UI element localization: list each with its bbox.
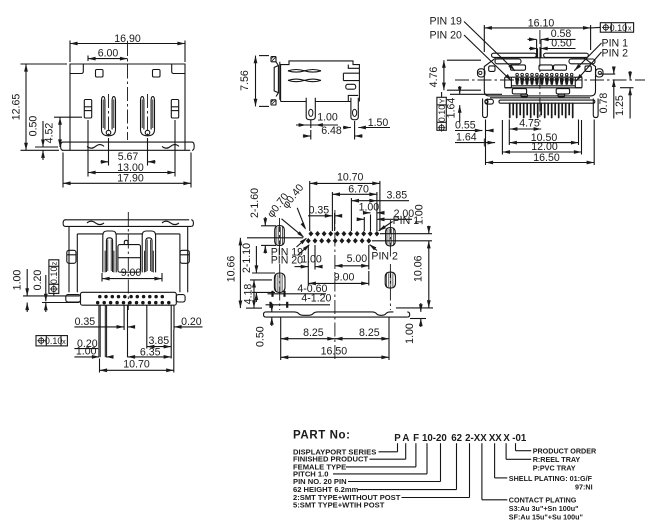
svg-text:1.00: 1.00 [12, 270, 24, 291]
rear view bottom flange strip [485, 99, 595, 104]
dim 2-1.10 [241, 243, 275, 302]
dim 0.58 [528, 28, 576, 41]
dim 10.70 bottom [100, 330, 174, 373]
label PIN 1 fp [379, 215, 420, 231]
svg-text:8.25: 8.25 [359, 327, 380, 339]
svg-text:0.10: 0.10 [610, 23, 628, 33]
bottom view flange [63, 220, 193, 227]
svg-text:-01: -01 [512, 433, 527, 444]
dim 10.70 fp [310, 171, 380, 231]
dim 0.35 bottom [74, 316, 135, 329]
svg-text:7.56: 7.56 [239, 70, 251, 91]
dim 0.20 right bottom [174, 316, 203, 329]
dim 1.00 side [296, 112, 338, 128]
dim 9.00 bottom [102, 267, 162, 282]
rear view centerline vertical [539, 30, 541, 122]
front view latch arm right [141, 94, 155, 141]
dim 10.06 [396, 241, 433, 308]
svg-text:97:NI: 97:NI [575, 482, 593, 491]
dim 8.25 right [335, 317, 389, 360]
dim 16.90 [70, 33, 185, 62]
svg-text:PIN 19: PIN 19 [430, 16, 462, 28]
svg-text:X: X [503, 433, 510, 444]
svg-text:62: 62 [451, 433, 462, 444]
svg-text:1.50: 1.50 [368, 117, 389, 129]
rear view leg left [483, 99, 488, 118]
svg-text:4.76: 4.76 [428, 67, 440, 88]
svg-text:0.50: 0.50 [254, 326, 266, 347]
dim 2.00 [357, 208, 415, 231]
svg-text:0.78: 0.78 [598, 93, 610, 114]
front view side contact right [171, 100, 178, 119]
label PIN 2 rear [576, 47, 628, 81]
svg-text:3.85: 3.85 [386, 190, 407, 202]
rear view contact teeth band [505, 73, 582, 88]
rear view side ear right [596, 69, 603, 77]
dim 4.52 [44, 117, 83, 147]
tolerance frame Y rear [437, 92, 447, 132]
svg-text:0.50: 0.50 [551, 37, 572, 49]
bottom view latch left [103, 231, 116, 272]
dim 4-0.60 [268, 283, 328, 297]
tolerance frame X bottom [36, 336, 67, 347]
svg-text:1.00: 1.00 [404, 323, 416, 344]
bottom view body sides [69, 226, 188, 292]
footprint centerline [334, 210, 336, 362]
svg-text:10.70: 10.70 [337, 171, 364, 183]
side view leg left [306, 98, 315, 120]
dim 16.10 [484, 17, 590, 52]
dim 1.00 left [12, 269, 80, 312]
svg-text:9.00: 9.00 [334, 272, 355, 284]
svg-text:SF:Au 15u"+Su 100u": SF:Au 15u"+Su 100u" [509, 513, 583, 522]
dim 7.56 [239, 56, 269, 107]
rear view center tab [537, 39, 541, 58]
footprint pad row lower [306, 238, 371, 243]
dim 8.25 left [281, 317, 335, 360]
dim 1.00 fp bottom right [404, 303, 426, 344]
bottom view inner top edge [77, 233, 180, 235]
dim 3.85 bottom [147, 335, 171, 349]
svg-text:XX: XX [489, 433, 502, 444]
dim 4-1.20 [266, 292, 332, 308]
bottom view side clip right [180, 250, 189, 263]
svg-text:0.35: 0.35 [75, 316, 96, 328]
svg-text:PIN 20: PIN 20 [430, 30, 462, 42]
front view centerline [127, 42, 129, 140]
svg-text:x: x [628, 24, 632, 33]
rear view centerline horizontal [455, 79, 645, 81]
part no code [394, 433, 527, 444]
dim 0.20 left [32, 270, 80, 312]
side view vent slot upper [288, 70, 321, 73]
dim 16.50 fp [281, 345, 389, 359]
dim 13.00 [88, 120, 175, 177]
tolerance frame X rear [591, 23, 634, 33]
dim 1.00 fp top [359, 202, 385, 231]
svg-text:P:PVC TRAY: P:PVC TRAY [533, 464, 576, 473]
rear view side ear left [478, 69, 485, 77]
svg-text:0.10: 0.10 [49, 267, 59, 285]
bottom view extension lines [99, 305, 174, 358]
svg-text:1.64: 1.64 [446, 98, 458, 119]
front view side contact left [84, 100, 91, 119]
svg-text:3.85: 3.85 [148, 335, 169, 347]
side view leg right [351, 98, 358, 120]
svg-text:4.18: 4.18 [243, 284, 255, 305]
svg-text:1.00: 1.00 [301, 253, 322, 265]
svg-text:10-20: 10-20 [422, 433, 447, 444]
dim 10.66 [225, 238, 303, 308]
svg-text:0.35: 0.35 [309, 204, 330, 216]
bottom view side clip left [67, 250, 76, 263]
dim 5.00 [335, 245, 369, 270]
svg-text:8.25: 8.25 [303, 327, 324, 339]
dim 1.25 [614, 71, 633, 119]
svg-text:10.06: 10.06 [413, 255, 425, 282]
dim 1.64 lower rear [455, 132, 495, 147]
rear view pin comb [510, 103, 573, 117]
svg-text:9.00: 9.00 [121, 267, 142, 279]
side view body outline [281, 61, 360, 102]
svg-text:16.50: 16.50 [533, 152, 560, 164]
mount slot lower-left [274, 264, 285, 310]
svg-text:x: x [62, 337, 66, 346]
rear view lower window rects [512, 89, 569, 97]
svg-text:PIN 2: PIN 2 [371, 250, 398, 262]
bottom view centerline [127, 212, 129, 310]
dim 6.35 bottom [128, 346, 172, 359]
bottom view center post [118, 240, 141, 272]
dim 5.67 [101, 138, 156, 166]
svg-text:1.00: 1.00 [317, 112, 338, 124]
front view corner notches [70, 64, 185, 74]
svg-text:2-1.10: 2-1.10 [241, 243, 253, 273]
rear view leg right [593, 99, 598, 118]
dim 0.50 [28, 116, 59, 160]
svg-text:6.48: 6.48 [321, 125, 342, 137]
dim 12.00 [502, 120, 581, 155]
svg-text:1.25: 1.25 [614, 95, 626, 116]
dim 4.18 [243, 280, 272, 308]
svg-text:16.50: 16.50 [321, 345, 348, 357]
svg-text:6.70: 6.70 [348, 183, 369, 195]
rear view shell outline [484, 58, 595, 98]
svg-text:1.64: 1.64 [456, 132, 477, 144]
part no left labels [293, 443, 470, 509]
svg-text:17.90: 17.90 [117, 173, 144, 185]
dim 1.50 [343, 117, 390, 129]
dim 4.75 [510, 117, 541, 131]
svg-text:5.00: 5.00 [347, 253, 368, 265]
svg-text:2-1.60: 2-1.60 [249, 188, 261, 218]
dim 1.00 fp stagger [295, 245, 323, 270]
dim 1.64 upper rear [446, 86, 502, 122]
dim 4.76 [428, 60, 481, 90]
tolerance frame Z bottom [49, 260, 59, 296]
svg-text:4.52: 4.52 [44, 123, 56, 144]
mount slot lower-right [385, 264, 395, 310]
dim 17.90 [63, 153, 191, 188]
dim 10.50 [509, 120, 578, 146]
label PIN 1 rear [574, 37, 628, 71]
svg-text:1.00: 1.00 [413, 204, 425, 225]
dim 0.50 fp [254, 303, 273, 347]
footprint pad row upper [309, 231, 379, 236]
mount slot upper-left [275, 218, 285, 258]
svg-text:PIN 2: PIN 2 [602, 47, 629, 59]
svg-text:10.70: 10.70 [123, 359, 150, 371]
dim 0.35 fp [308, 204, 342, 231]
svg-text:16.90: 16.90 [114, 33, 141, 45]
dim 3.85 fp [351, 190, 409, 232]
label PIN 20 rear [430, 30, 512, 82]
svg-text:5:SMT TYPE+WTIH POST: 5:SMT TYPE+WTIH POST [293, 500, 385, 509]
label PIN 20 fp [271, 244, 310, 266]
dim 6.00 [88, 48, 128, 61]
label phi 0.40 [280, 182, 306, 230]
label PIN 19 fp [271, 238, 307, 259]
board edge strip [264, 312, 410, 317]
side view vent slot lower [288, 79, 321, 82]
dim 0.78 [598, 67, 616, 119]
svg-text:0.50: 0.50 [28, 116, 40, 137]
svg-text:4-1.20: 4-1.20 [301, 292, 331, 304]
bottom view latch right [142, 231, 155, 272]
front view latch arm left [102, 94, 116, 141]
svg-text:1.00: 1.00 [359, 202, 380, 214]
svg-text:0.20: 0.20 [32, 270, 44, 291]
side view bottom edge [281, 101, 351, 103]
svg-text:PART No:: PART No: [293, 430, 351, 442]
svg-text:0.10: 0.10 [45, 336, 63, 346]
label PIN 2 fp [369, 244, 398, 262]
front view shell outline [61, 64, 195, 150]
front view body side extensions [70, 142, 185, 150]
dim 6.70 [332, 183, 377, 231]
dim 9.00 fp [308, 245, 369, 286]
front view window holes [96, 70, 161, 78]
dim 1.00 bottom [74, 346, 113, 359]
part no right labels [482, 443, 597, 521]
dim 6.48 [303, 121, 363, 140]
svg-text:PIN 20: PIN 20 [271, 255, 303, 267]
svg-text:6.00: 6.00 [98, 48, 119, 60]
dim 0.55 [455, 119, 494, 132]
part no title [293, 430, 351, 442]
dim 16.50 rear [486, 120, 595, 166]
svg-text:0.55: 0.55 [455, 119, 476, 131]
svg-text:12.65: 12.65 [11, 94, 23, 121]
label PIN 19 rear [430, 16, 516, 71]
dim 12.65 [11, 64, 68, 150]
side view front plate [271, 57, 280, 105]
svg-text:2-XX: 2-XX [465, 433, 487, 444]
dim 0.50 rear [529, 37, 576, 50]
dim 0.20 left lower [74, 338, 98, 350]
svg-text:6.35: 6.35 [140, 346, 161, 358]
bottom view solder bar [66, 292, 185, 305]
svg-text:4.75: 4.75 [519, 117, 540, 129]
svg-text:P: P [394, 433, 401, 444]
mount slot upper-right [386, 220, 396, 258]
svg-text:A: A [402, 433, 409, 444]
dim 1.00 fp right [372, 204, 432, 241]
rear view upper window rects [489, 65, 592, 72]
svg-text:10.66: 10.66 [225, 256, 237, 283]
dim 2-1.60 [249, 188, 276, 254]
label phi 0.70 [265, 191, 304, 238]
svg-text:z: z [49, 261, 58, 265]
rear view top tabs [492, 53, 596, 64]
svg-text:0.20: 0.20 [181, 316, 202, 328]
svg-text:F: F [413, 433, 419, 444]
